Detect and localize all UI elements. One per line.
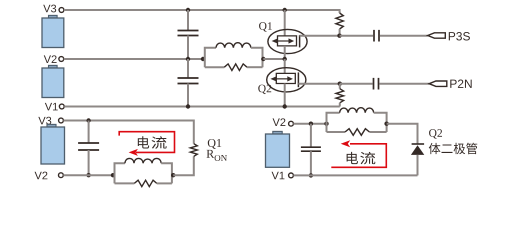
capacitor C2 (V2-V1) bbox=[178, 59, 199, 107]
label V1 (top cell stack) bbox=[45, 103, 58, 111]
label Q2 (body diode) bbox=[429, 129, 442, 138]
inductor L1 bbox=[216, 43, 251, 48]
label Q2 bbox=[258, 85, 271, 94]
wire V3 rail bbox=[64, 10, 340, 13]
label Q1 (RON) bbox=[208, 139, 221, 149]
label V2 (bottom-left) bbox=[35, 172, 48, 180]
battery cell V3-V2 bbox=[42, 15, 64, 47]
wire Q2 gate lead bbox=[298, 83, 339, 85]
battery cell bottom-left bbox=[41, 124, 65, 164]
label current 电流 (bottom-right) bbox=[347, 152, 376, 164]
wire RL3 bottom lead right bbox=[370, 131, 387, 133]
junction V3 rail / C1 bbox=[186, 8, 190, 12]
label V2 (bottom-right) bbox=[273, 118, 286, 126]
wire diode to V1 rail bbox=[417, 155, 419, 176]
resistor R-L2 damp bbox=[134, 180, 157, 186]
wire SW node to Q1/Q2 bbox=[263, 58, 284, 60]
label V3 (bottom-left) bbox=[38, 117, 51, 125]
node RL2 right bbox=[171, 173, 175, 177]
label V1 (bottom-right) bbox=[272, 172, 285, 180]
junction C6 top bbox=[309, 122, 313, 126]
terminal V3 bottom-left bbox=[59, 118, 64, 123]
terminal V1 bottom-right bbox=[289, 173, 294, 178]
red current loop arrow (bottom-right) bbox=[331, 144, 386, 168]
node RL3 left bbox=[324, 122, 328, 126]
wire V1 rail bbox=[64, 106, 340, 108]
wire RL1 top lead right bbox=[251, 48, 263, 67]
resistor R-L3 damp bbox=[345, 129, 370, 136]
capacitor C1 (V3-V2) bbox=[178, 10, 199, 59]
MOSFET Q2 bbox=[267, 68, 306, 92]
red current loop arrow (bottom-left) bbox=[119, 132, 174, 153]
inductor L2 bbox=[125, 158, 161, 163]
capacitor C3 (P3S coupling) bbox=[340, 30, 428, 42]
junction Q1 source / SW bbox=[283, 57, 287, 61]
terminal V1 bbox=[59, 104, 64, 109]
junction C5 bottom bbox=[86, 173, 90, 177]
wire R2 top lead bbox=[339, 84, 341, 89]
wire RL1 bottom lead left bbox=[205, 66, 225, 68]
wire bottom-left bottom rail bbox=[63, 174, 113, 176]
terminal P2N flag bbox=[429, 81, 447, 86]
terminal V2 bottom-right bbox=[289, 121, 294, 126]
wire RL3 left vertical bbox=[327, 113, 340, 132]
wire RL3 top lead right bbox=[374, 113, 387, 132]
wire RL3 bottom lead left bbox=[327, 131, 346, 133]
wire bottom-left top rail bbox=[63, 121, 193, 144]
wire RL2 top lead right bbox=[161, 163, 172, 183]
wire Q1 drain bbox=[284, 10, 286, 36]
label V2 (top cell stack) bbox=[44, 55, 57, 63]
MOSFET Q1 bbox=[268, 29, 307, 53]
wire RL3 right to diode bbox=[387, 124, 418, 144]
wire Q2 source bbox=[284, 84, 286, 107]
junction V1 rail / C2 bbox=[186, 104, 190, 108]
label P3S bbox=[449, 32, 470, 40]
node RL3 right bbox=[384, 122, 388, 126]
node RL1 right bbox=[261, 57, 265, 61]
wire bottom-right bottom rail bbox=[293, 174, 417, 176]
red arrowhead (bottom-right) bbox=[341, 140, 351, 147]
resistor R1 (Q1 gate) bbox=[336, 13, 343, 29]
wire RL2 bottom lead right bbox=[157, 182, 172, 184]
junction V2 rail / C1 C2 bbox=[186, 57, 190, 61]
node Q1 gate / C3 bbox=[337, 34, 341, 38]
wire R2 bottom lead bbox=[339, 103, 341, 107]
label body diode 体二极管 bbox=[429, 143, 477, 154]
inductor L3 bbox=[340, 108, 374, 113]
wire Q1 gate lead bbox=[300, 35, 340, 37]
node RL1 left bbox=[201, 57, 205, 61]
wire RL2 bottom lead left bbox=[115, 182, 135, 184]
junction C6 bottom bbox=[309, 173, 313, 177]
label current 电流 (bottom-left) bbox=[138, 136, 167, 148]
terminal V2 bottom-left bbox=[59, 173, 64, 178]
wire Q1 source bbox=[284, 46, 286, 59]
wire RL2 right to RON bbox=[173, 156, 194, 175]
wire RL1 left vertical bbox=[205, 48, 216, 67]
wire RL1 bottom lead right bbox=[247, 66, 263, 68]
capacitor C6 bbox=[301, 124, 321, 176]
terminal V3 bbox=[59, 8, 64, 13]
capacitor C5 bbox=[78, 121, 99, 176]
label P2N bbox=[450, 80, 471, 88]
terminal V2 bbox=[59, 57, 64, 62]
junction C5 top bbox=[86, 118, 90, 122]
resistor R-L1 damp bbox=[224, 64, 247, 71]
wire bottom-right top rail bbox=[293, 123, 326, 125]
label V3 (top cell stack) bbox=[43, 5, 56, 13]
junction Q2 source / V1 rail bbox=[283, 104, 287, 108]
diode Q2 body (bar) bbox=[412, 143, 425, 145]
wire Q2 drain bbox=[284, 59, 286, 73]
red arrowhead (bottom-left) bbox=[129, 149, 138, 156]
battery cell bottom-right bbox=[266, 131, 290, 167]
node RL2 left bbox=[111, 173, 115, 177]
resistor Q1 RON bbox=[190, 144, 197, 157]
label Q1 bbox=[259, 22, 272, 31]
junction Q1 drain on V3 rail bbox=[283, 8, 287, 12]
terminal P3S flag bbox=[428, 33, 446, 38]
capacitor C4 (P2N coupling) bbox=[340, 78, 429, 90]
diode Q2 body (triangle) bbox=[411, 145, 424, 155]
wire V2 rail bbox=[64, 58, 203, 60]
wire R1 bottom lead bbox=[339, 29, 341, 36]
battery cell V2-V1 bbox=[42, 65, 64, 97]
wire RL2 left vertical bbox=[115, 163, 125, 183]
node Q2 gate / C4 bbox=[338, 82, 342, 86]
label RON bbox=[207, 150, 227, 161]
resistor R2 (Q2 gate) bbox=[336, 89, 344, 103]
